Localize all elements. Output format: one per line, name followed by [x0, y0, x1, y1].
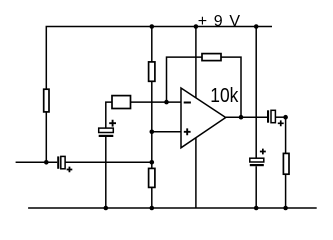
wire ground rail — [28, 207, 317, 209]
node dot top rail filter — [254, 24, 259, 29]
node dot output terminal — [283, 115, 288, 120]
capacitor C4 bar plate — [250, 164, 264, 166]
node dot inverting feedback — [164, 100, 169, 105]
node dot top rail V+ — [194, 24, 199, 29]
node dot top rail bias — [150, 24, 155, 29]
node dot ground bias — [150, 206, 155, 211]
wire C3 to output node — [275, 116, 285, 118]
wire noninverting input — [152, 131, 181, 133]
node dot output feedback — [239, 115, 244, 120]
wire C1 to bias rail — [65, 161, 152, 163]
wire input lead — [16, 161, 58, 163]
op-amp U1 — [181, 88, 226, 148]
node dot ground load — [283, 206, 288, 211]
wire R4 left lead down to C2 — [106, 102, 112, 128]
node dot ground C2 — [104, 206, 109, 211]
node dot bias noninverting — [150, 130, 155, 135]
C1 plus mark — [67, 167, 73, 173]
svg-text:10k: 10k — [210, 84, 239, 106]
capacitor C1 bar plate — [57, 156, 59, 168]
node dot bias input — [150, 160, 155, 165]
wire op-amp V+ pin — [195, 27, 197, 98]
resistor R1 — [44, 89, 49, 112]
op-amp minus input mark — [184, 102, 191, 104]
capacitor C4 plus plate box — [250, 158, 264, 162]
wire op-amp V- pin — [195, 138, 197, 208]
resistor R5 — [202, 54, 221, 61]
capacitor C3 bar plate — [267, 110, 269, 122]
resistor R3 — [149, 168, 155, 187]
wire bias rail vertical — [151, 27, 153, 209]
wire op-amp output — [226, 116, 268, 118]
wire supply filter branch — [255, 27, 257, 209]
capacitor C3 plus plate box — [271, 110, 275, 122]
node dot ground filter — [254, 206, 259, 211]
resistor R2 — [149, 62, 155, 81]
wire R1 bottom to input node — [45, 112, 47, 162]
capacitor C2 bar plate — [99, 135, 114, 137]
svg-text:+ 9 V: + 9 V — [198, 13, 241, 30]
wire top +9V rail with left corner drop — [46, 27, 272, 90]
resistor R4 — [112, 96, 131, 109]
resistor R6 — [283, 153, 289, 174]
C3 plus mark — [278, 120, 284, 126]
C2 plus mark — [109, 120, 116, 127]
wire inverting input — [131, 101, 182, 103]
capacitor C1 plus plate box — [61, 156, 65, 168]
op-amp plus input mark — [184, 128, 191, 135]
node dot input R1 — [44, 160, 49, 165]
wire C2 bottom to ground rail — [105, 137, 107, 208]
wire feedback left leg — [167, 57, 203, 102]
C4 plus mark — [260, 149, 266, 155]
capacitor C2 plus plate box — [99, 128, 114, 132]
wire output load branch — [285, 117, 287, 208]
wire feedback right leg — [221, 57, 241, 117]
